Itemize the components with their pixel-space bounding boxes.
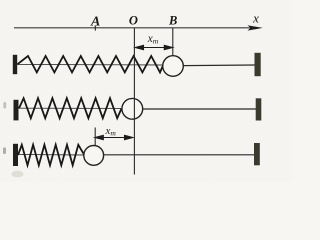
row 1: spring center line xyxy=(17,63,162,66)
dimension arrow x_m (row 3, A to O) xyxy=(95,135,133,139)
scan mark left edge lower xyxy=(3,148,6,155)
scan smudge bottom-left xyxy=(12,171,24,178)
tick A xyxy=(94,25,96,30)
row 3: left wall xyxy=(13,144,18,166)
axis arrowhead xyxy=(248,25,263,30)
dimension arrow x_m (row 1, O to B) xyxy=(135,45,172,49)
wire: ball 2 to right wall xyxy=(143,108,256,110)
wire: ball 1 to right wall xyxy=(183,64,255,67)
spring 1 xyxy=(18,56,164,72)
ball 1 xyxy=(163,56,184,77)
row 2: spring center line xyxy=(19,107,122,109)
row 3: right wall xyxy=(254,143,260,165)
svg-text:x: x xyxy=(252,11,259,26)
ball 3 xyxy=(84,146,104,166)
ball 2 xyxy=(122,98,143,119)
node O vertical line xyxy=(133,28,135,175)
row 2: right wall xyxy=(256,98,262,120)
spring 3 xyxy=(18,145,85,165)
wire: vertical tick above ball 3 xyxy=(94,128,96,146)
row 1: right wall xyxy=(255,53,261,76)
spring 2 xyxy=(19,98,122,118)
wire: vertical line at B down to ball 1 xyxy=(172,28,174,56)
svg-text:B: B xyxy=(168,14,177,28)
row 1: left wall xyxy=(13,55,17,74)
row 2: left wall xyxy=(14,100,19,121)
svg-text:A: A xyxy=(90,15,100,30)
scan mark left edge upper xyxy=(3,102,6,109)
x axis xyxy=(14,27,252,29)
svg-text:O: O xyxy=(129,14,138,28)
wire: ball 3 to right wall xyxy=(104,154,255,156)
row 3: spring center line xyxy=(18,153,84,156)
